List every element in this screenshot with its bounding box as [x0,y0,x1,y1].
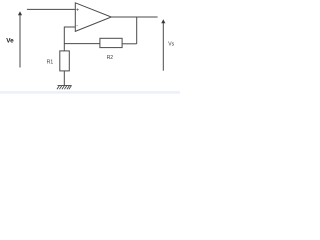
Vs annotation arrow [162,23,164,71]
svg-text:R1: R1 [47,60,54,66]
wire output [111,16,157,18]
ground [57,86,72,90]
wire inverting input [64,27,75,51]
Ve annotation arrow [19,15,21,68]
svg-text:-: - [76,23,78,29]
svg-text:+: + [76,7,79,13]
svg-text:R2: R2 [107,55,114,61]
bottom separator band [0,91,180,93]
wire node to R2 left [64,43,100,45]
resistor R1 [60,51,70,71]
svg-text:Ve: Ve [6,38,14,45]
wire input to + [27,8,75,10]
wire feedback vertical [136,17,138,44]
wire R2 right to feedback [122,43,137,45]
resistor R2 [100,38,122,47]
wire R1 to ground [63,71,65,86]
svg-text:Vs: Vs [168,42,174,48]
op-amp U1 [75,3,111,32]
